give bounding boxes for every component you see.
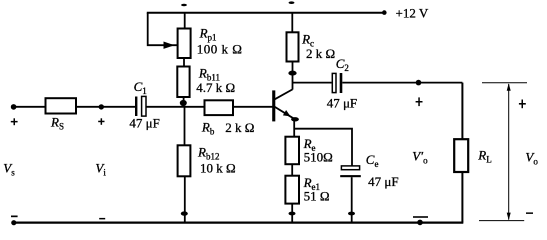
svg-text:Vi: Vi [95, 161, 106, 178]
svg-text:47 μF: 47 μF [368, 174, 398, 189]
svg-text:Vs: Vs [3, 161, 15, 178]
svg-text:100 k Ω: 100 k Ω [197, 42, 243, 57]
svg-text:RL: RL [477, 148, 491, 165]
svg-text:RS: RS [50, 115, 64, 132]
svg-text:+12 V: +12 V [396, 6, 429, 21]
svg-text:C2: C2 [336, 56, 349, 73]
svg-text:510Ω: 510Ω [304, 150, 333, 165]
svg-text:10 k Ω: 10 k Ω [200, 161, 236, 176]
svg-text:Rb12: Rb12 [197, 145, 219, 162]
svg-text:47 μF: 47 μF [129, 116, 159, 131]
svg-text:C1: C1 [134, 79, 147, 96]
svg-text:47 μF: 47 μF [327, 96, 357, 111]
svg-text:Rp1: Rp1 [199, 25, 217, 42]
svg-text:V′o: V′o [412, 149, 428, 166]
svg-text:2 k Ω: 2 k Ω [225, 120, 254, 135]
svg-text:Vo: Vo [525, 149, 538, 166]
svg-text:Ce: Ce [366, 152, 379, 169]
svg-text:4.7 k Ω: 4.7 k Ω [196, 80, 235, 95]
svg-text:Rb: Rb [201, 120, 215, 137]
svg-text:2 k Ω: 2 k Ω [306, 46, 335, 61]
svg-text:51 Ω: 51 Ω [304, 189, 330, 204]
